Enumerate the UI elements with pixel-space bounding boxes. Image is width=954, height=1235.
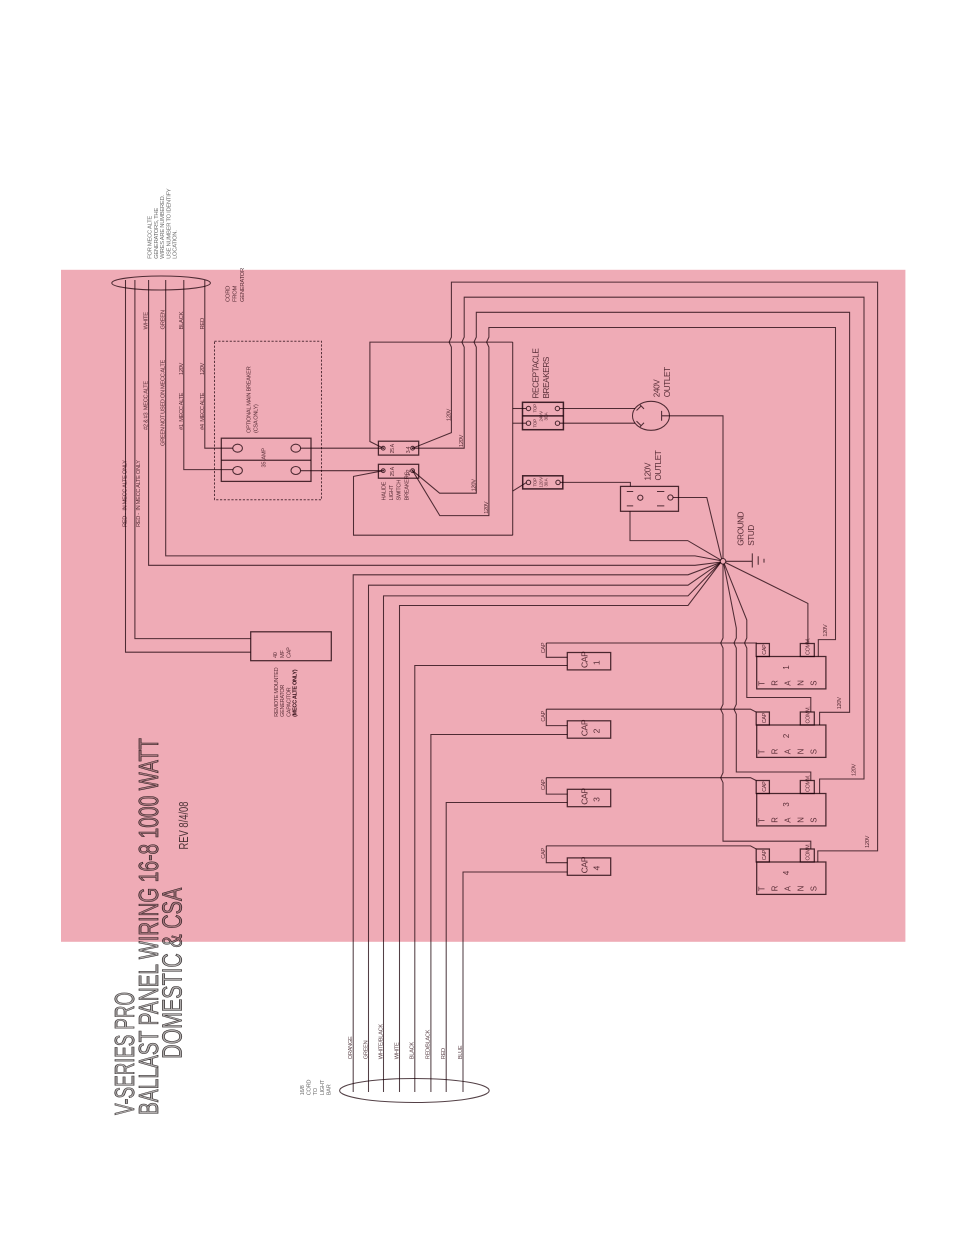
TRANS 1 CAP terminal stub [756,644,769,657]
wire bus to 240V breaker bottom [513,422,527,424]
cord to light bar ellipse [340,1079,490,1103]
wire 120V outlet neutral to stud [673,498,722,559]
svg-text:BLACK: BLACK [179,311,185,329]
svg-text:T: T [758,749,767,754]
svg-text:25 A: 25 A [390,466,396,476]
main breaker terminal top-right [291,444,301,452]
svg-text:1: 1 [592,660,602,665]
svg-text:TO: TO [313,1087,319,1095]
svg-text:N: N [797,817,806,822]
svg-text:3-4: 3-4 [406,446,412,453]
svg-text:BLUE: BLUE [458,1045,464,1059]
svg-text:16/8: 16/8 [300,1085,306,1095]
wire ground stud to TRANS 1 COMM [726,563,808,644]
ground symbol [726,553,764,567]
svg-text:N: N [797,680,806,685]
svg-text:3: 3 [782,803,791,807]
svg-text:OUTLET: OUTLET [663,367,672,397]
transformer TRANS 1 [757,657,826,689]
svg-text:120V: 120V [865,835,871,848]
svg-text:(MECC ALTE ONLY): (MECC ALTE ONLY) [293,669,299,717]
svg-text:DOMESTIC & CSA: DOMESTIC & CSA [157,887,188,1058]
svg-text:CAP: CAP [287,647,293,658]
wire 240V outlet to ground stud [670,416,724,559]
svg-text:LIGHT: LIGHT [389,485,395,501]
wire white (neutral) to ground stud [149,280,721,565]
svg-text:240V: 240V [653,379,662,397]
svg-text:CAPACITOR: CAPACITOR [286,687,292,717]
TRANS 2 CAP terminal stub [756,712,769,725]
wire lightbar orange to ground stud [353,563,720,1093]
svg-text:120V: 120V [484,501,490,514]
svg-text:120V: 120V [837,697,843,710]
breaker 25A 3-4 [378,441,418,455]
svg-text:BREAKERS: BREAKERS [404,472,410,501]
svg-text:RED - IN MECC ALTE ONLY: RED - IN MECC ALTE ONLY [123,460,129,527]
wire bus to 240V breaker top [513,408,527,410]
wire lightbar black to cap [415,666,568,1093]
svg-text:120V: 120V [200,362,206,375]
svg-text:GREEN: GREEN [363,1040,369,1059]
svg-text:R: R [771,748,780,754]
svg-text:#1 MECC ALTE: #1 MECC ALTE [179,392,185,430]
120V feed breaker 3-4 to trans 4 [413,282,878,862]
svg-text:USE NUMBER TO IDENTIFY: USE NUMBER TO IDENTIFY [166,188,172,259]
svg-text:N: N [797,749,806,754]
capacitor CAP 1 [567,653,610,670]
TRANS 3 COMM terminal stub [800,781,814,794]
svg-text:35 AMP: 35 AMP [262,448,268,468]
wire lightbar red to cap [446,803,567,1093]
svg-text:FROM: FROM [233,286,239,302]
wire receptacle bus vertical [512,342,514,535]
svg-text:T: T [758,818,767,823]
generator cord ellipse [112,276,211,290]
wire lightbar red/black to cap [431,735,567,1093]
svg-text:4: 4 [592,866,602,871]
svg-text:(CSA ONLY): (CSA ONLY) [254,404,260,433]
svg-text:WHITE/BLACK: WHITE/BLACK [378,1024,384,1060]
receptacle breaker 240V 30A [523,402,564,429]
svg-text:25 A: 25 A [390,443,396,453]
receptacle breaker 120V 30A [523,476,563,489]
main breaker terminal bottom-left [233,467,243,475]
wire main breaker to breaker 3-4 [301,447,382,449]
svg-text:R: R [771,680,780,686]
svg-text:RED/BLACK: RED/BLACK [426,1029,432,1059]
wire CAP 2 riser [546,709,567,725]
capacitor 40MF (remote generator capacitor) [251,632,332,661]
wire CAP 1 riser [546,643,567,657]
wire CAP 4 to TRANS 4 [546,846,756,849]
wire ground stud to TRANS 2 COMM [724,564,811,712]
svg-text:SWITCH: SWITCH [397,480,403,501]
svg-text:CAP: CAP [580,856,590,873]
svg-text:120V: 120V [851,763,857,776]
svg-text:BLACK: BLACK [410,1042,416,1060]
svg-text:GREEN NOT USED ON MECC ALTE: GREEN NOT USED ON MECC ALTE [161,360,167,446]
svg-text:HALIDE: HALIDE [382,481,388,500]
svg-text:CORD: CORD [307,1080,313,1096]
wire breaker 3-4 input loop to receptacle bus (with crossover hops) [370,342,513,448]
transformer TRANS 4 [757,862,826,894]
svg-text:120V: 120V [459,434,465,447]
wire CAP 2 to TRANS 2 (with hops) [546,709,756,712]
svg-text:MF: MF [280,650,286,658]
wire main breaker to breaker 1-2 [301,470,382,472]
optional main breaker dashed enclosure (CSA only) [215,341,322,500]
wire ground stud to TRANS 3 COMM [724,564,811,781]
svg-text:STUD: STUD [747,525,756,546]
240V outlet [633,401,670,430]
TRANS 4 CAP terminal stub [756,849,769,862]
wire ground stud to TRANS 4 COMM [721,564,811,849]
svg-text:30 A: 30 A [544,411,549,420]
svg-text:TOP: TOP [533,478,538,487]
wire red (hot) to main breaker [205,280,233,448]
svg-text:GREEN: GREEN [161,310,167,329]
svg-text:#2 & #3 MECC ALTE: #2 & #3 MECC ALTE [144,381,150,430]
svg-text:LOCATION.: LOCATION. [173,230,179,259]
TRANS 3 CAP terminal stub [756,781,769,794]
svg-text:REV 8/4/08: REV 8/4/08 [176,802,191,850]
wire lightbar blue to cap [463,872,567,1092]
capacitor CAP 3 [567,789,610,806]
svg-text:WHITE: WHITE [144,312,150,330]
svg-text:2: 2 [592,728,602,733]
svg-text:120V: 120V [644,462,653,480]
120V feed breaker 1-2 to trans 2 [413,312,850,725]
svg-text:REMOTE MOUNTED: REMOTE MOUNTED [274,667,280,717]
svg-text:120V: 120V [471,479,477,492]
svg-text:CAP: CAP [580,719,590,736]
svg-text:CAP: CAP [541,779,547,790]
svg-text:S: S [810,818,819,823]
svg-text:CAP: CAP [541,710,547,721]
ground stud [720,559,726,565]
svg-text:120V: 120V [179,362,185,375]
svg-text:1: 1 [782,666,791,670]
svg-text:CAP: CAP [762,781,768,792]
wire CAP 3 riser [546,778,567,794]
svg-text:BREAKERS: BREAKERS [542,356,551,398]
wire CAP 4 riser [546,846,567,863]
wire black (hot) to main breaker [184,280,233,470]
svg-text:120V: 120V [823,624,829,637]
svg-text:RECEPTACLE: RECEPTACLE [532,348,541,399]
wire 240V breaker to outlet (bottom) [560,422,635,424]
svg-text:S: S [810,886,819,891]
TRANS 2 COMM terminal stub [800,712,814,725]
120V feed breaker 3-4 to trans 3 [413,297,864,793]
wire 120V outlet ground to stud [630,511,720,560]
120V outlet [621,486,679,511]
svg-text:TOP: TOP [533,419,538,428]
svg-text:GENERATOR: GENERATOR [280,685,286,717]
svg-text:CAP: CAP [762,644,768,655]
wire lightbar white/black to ground stud [384,563,721,1093]
svg-text:120V: 120V [446,408,452,421]
breaker 25A 1-2 [378,464,418,478]
svg-text:#4 MECC ALTE: #4 MECC ALTE [200,392,206,430]
wire 240V breaker to outlet (top) [560,408,635,410]
svg-text:GENERATOR: GENERATOR [240,268,246,302]
svg-text:FOR MECC ALTE: FOR MECC ALTE [148,216,154,259]
svg-text:CAP: CAP [580,788,590,805]
svg-text:WIRES ARE NUMBERED.: WIRES ARE NUMBERED. [160,195,166,259]
svg-text:R: R [771,817,780,823]
svg-text:T: T [758,681,767,686]
wire 120V breaker to outlet [560,482,630,486]
svg-text:BAR: BAR [326,1084,332,1095]
wire CAP 3 to TRANS 3 (with hop) [546,778,756,781]
svg-text:WHITE: WHITE [394,1042,400,1059]
main breaker 35 AMP [221,438,311,481]
wire lightbar white to ground stud [400,563,721,1093]
wire green (ground) to ground stud [166,280,721,561]
svg-text:R: R [771,885,780,891]
svg-text:RED: RED [441,1048,447,1059]
svg-text:T: T [758,886,767,891]
wire CAP 1 to TRANS 1 (with hops) [546,642,757,644]
main breaker terminal bottom-right [291,467,301,475]
svg-text:40: 40 [273,652,279,658]
svg-text:S: S [810,681,819,686]
wire red (mecc alte) 1 [126,280,251,652]
transformer TRANS 2 [757,725,826,757]
svg-text:OUTLET: OUTLET [654,450,663,480]
120V feed breaker 1-2 to trans 1 [413,328,836,657]
TRANS 1 COMM terminal stub [800,644,814,657]
svg-text:LIGHT: LIGHT [320,1079,326,1095]
svg-text:CAP: CAP [541,642,547,653]
svg-text:CAP: CAP [541,848,547,859]
capacitor CAP 4 [567,858,610,875]
wire lightbar green to ground stud [369,563,721,1093]
svg-text:3: 3 [592,797,602,802]
svg-text:CORD: CORD [226,286,232,302]
transformer TRANS 3 [757,794,826,826]
wire bus to 120V breaker [513,483,527,492]
svg-text:TOP: TOP [533,404,538,413]
pink highlight panel [61,270,905,942]
svg-text:S: S [810,749,819,754]
main breaker terminal top-left [233,444,243,452]
svg-text:OPTIONAL MAIN BREAKER: OPTIONAL MAIN BREAKER [247,366,253,433]
svg-text:RED - IN MECC ALTE ONLY: RED - IN MECC ALTE ONLY [136,460,142,527]
svg-text:N: N [797,886,806,891]
svg-text:CAP: CAP [762,849,768,860]
svg-text:CAP: CAP [580,651,590,668]
svg-text:ORANGE: ORANGE [348,1036,354,1059]
TRANS 4 COMM terminal stub [800,849,814,862]
wire breaker 1-2 input to bus bottom [354,471,513,536]
svg-text:30 A: 30 A [544,477,549,486]
svg-text:RED: RED [200,318,206,330]
svg-text:GROUND: GROUND [737,511,746,545]
svg-text:2: 2 [782,734,791,738]
svg-text:GENERATORS, THE: GENERATORS, THE [154,208,160,259]
wire red (mecc alte) 2 [135,280,251,639]
capacitor CAP 2 [567,721,610,738]
svg-text:CAP: CAP [762,712,768,723]
